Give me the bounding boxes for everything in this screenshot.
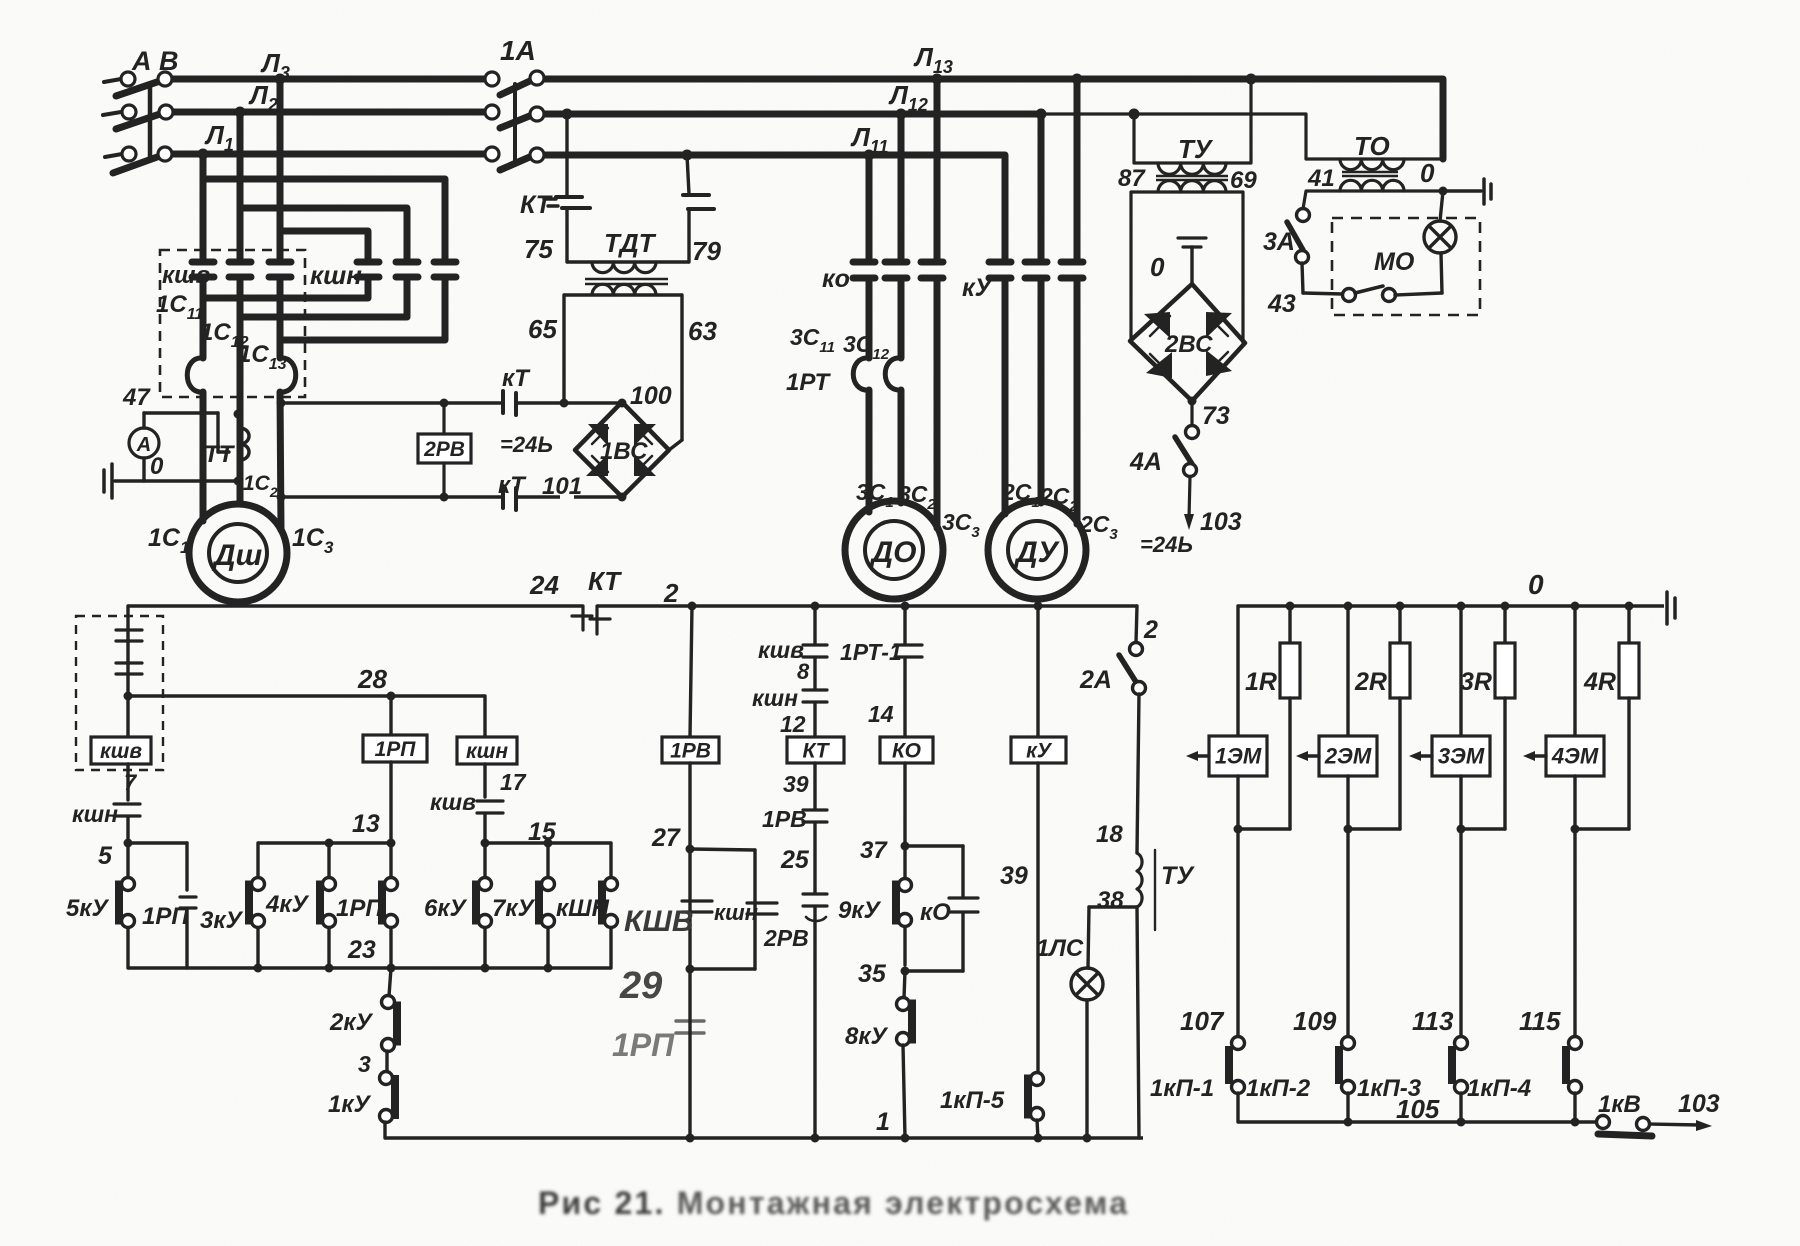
svg-text:63: 63: [688, 316, 717, 346]
wire 2РВ bottom lead: [442, 463, 445, 497]
label 1РТ: [786, 369, 831, 396]
label 0: [150, 453, 164, 480]
svg-text:37: 37: [860, 837, 888, 864]
label 100: [630, 382, 672, 410]
wire rail 13: [258, 841, 391, 844]
svg-text:5кУ: 5кУ: [66, 895, 110, 922]
label 39: [783, 771, 809, 797]
3-phase supply disconnect switch АВ, pole 1 (line Л3): [104, 72, 172, 96]
svg-text:2РВ: 2РВ: [763, 925, 809, 951]
wire ТДТ secondary right lead: [669, 295, 682, 450]
svg-text:1: 1: [876, 1108, 890, 1136]
svg-text:39: 39: [783, 771, 809, 797]
node secondary-left on DC bus: [560, 399, 569, 408]
svg-text:4ЭМ: 4ЭМ: [1551, 744, 1599, 769]
node 28 rail start: [124, 692, 133, 701]
wire line Л1 from АВ to 1А: [172, 151, 489, 158]
svg-text:кшн: кшн: [714, 900, 758, 925]
svg-text:КТ: КТ: [588, 566, 622, 596]
label ТДТ: [604, 228, 657, 258]
contact 1РП self-hold: [382, 839, 398, 969]
wire motor lead 3С3: [934, 280, 941, 528]
relay coil КУ: [1011, 737, 1066, 763]
transformer ТО secondary: [1306, 180, 1443, 191]
node 2РВ top: [440, 399, 449, 408]
svg-text:Рис 21. Монтажная электросхема: Рис 21. Монтажная электросхема: [538, 1185, 1129, 1221]
diode in 1ВС upper-left: [588, 424, 608, 446]
wire joining 4R to coil branch: [1575, 827, 1629, 830]
label ТУ bracket: [1155, 850, 1195, 930]
transformer ТО core: [1342, 172, 1398, 176]
svg-text:кТ: кТ: [502, 365, 531, 392]
svg-text:=24Ь: =24Ь: [500, 432, 553, 457]
wire 1РП coil to node13: [389, 762, 392, 843]
wire 1ЭМ to contact: [1236, 776, 1239, 1036]
wire 1РП coil feed: [387, 692, 396, 736]
wire lamp top lead: [1440, 191, 1443, 221]
label кшн: [72, 801, 118, 827]
label 63: [688, 316, 717, 346]
wire 1РП bypass: [128, 843, 196, 968]
wire drop x=203 from Л1: [200, 154, 207, 258]
svg-text:113: 113: [1412, 1006, 1454, 1036]
node below 2ЭМ: [1344, 825, 1353, 834]
label 12: [780, 711, 806, 737]
contact 2РВ time-delay: [803, 894, 827, 921]
thermal element on lead 1С1: [187, 358, 203, 392]
wire Л13 corner down to ТО: [1440, 79, 1447, 159]
wire jumper y=208 to Кшн col: [240, 208, 407, 258]
label 103: [1678, 1090, 1720, 1118]
svg-text:ДУ: ДУ: [1013, 536, 1061, 569]
svg-text:24: 24: [529, 570, 559, 600]
wire 43 horizontal: [1303, 293, 1343, 294]
label 1ВС: [600, 438, 648, 465]
circuit breaker 1А pole 1: [485, 71, 544, 95]
wire 28 rail: [128, 694, 485, 697]
wire cross link y=340: [280, 337, 445, 344]
contactor contact Кшв phase 2: [229, 262, 251, 277]
label КО: [822, 265, 850, 293]
node КУ rung bottom: [1034, 1134, 1043, 1143]
svg-text:МО: МО: [1374, 248, 1415, 276]
svg-text:2ВС: 2ВС: [1164, 331, 1213, 358]
label Л3: [260, 48, 290, 83]
node rail 548: [544, 964, 553, 973]
wire 3ЭМ upper lead: [1459, 606, 1462, 736]
svg-text:Дш: Дш: [211, 539, 263, 572]
svg-text:3R: 3R: [1460, 668, 1492, 696]
label ТО: [1354, 131, 1390, 161]
wire drop x=1041: [1036, 109, 1047, 259]
label 7: [124, 770, 138, 795]
svg-text:39: 39: [1000, 862, 1028, 890]
pushbutton 5КУ: [119, 843, 135, 968]
node on Л11 at x=869: [864, 150, 875, 161]
node 27: [686, 845, 695, 854]
node resistor branch 3R: [1501, 602, 1510, 611]
svg-text:ТДТ: ТДТ: [604, 228, 657, 258]
svg-text:5: 5: [98, 842, 113, 870]
wire below Кшн coil: [483, 764, 486, 797]
svg-text:100: 100: [630, 382, 672, 410]
diode in 2ВС lower-left: [1146, 352, 1172, 378]
label Кшв: [430, 789, 476, 815]
rectifier bridge 2ВС outline: [1130, 284, 1245, 401]
contact КШВ in loop: [682, 849, 712, 969]
label 3С2: [898, 481, 936, 513]
label 4R: [1583, 668, 1616, 696]
node 29: [686, 965, 695, 974]
wire drop x=280 from Л3: [277, 79, 284, 258]
contact 1РТ-1: [895, 645, 922, 657]
node lamp bottom: [1083, 1134, 1092, 1143]
pushbutton 2КУ: [382, 968, 398, 1072]
label 15: [528, 818, 557, 846]
switch 1А mechanical link: [513, 84, 517, 160]
switch АВ mechanical link: [148, 84, 153, 158]
wire 3R lower lead: [1503, 698, 1506, 829]
node bottom bus 115: [1571, 1118, 1580, 1127]
wire motor lead 3С1 upper: [866, 280, 873, 358]
svg-text:18: 18: [1096, 821, 1123, 848]
wire below ТУ coil: [1137, 907, 1139, 1138]
svg-text:2ЭМ: 2ЭМ: [1324, 744, 1372, 769]
wire 4ЭМ to contact: [1573, 776, 1576, 1036]
ground symbol right: [1667, 592, 1675, 624]
wire lower rail: [128, 966, 611, 969]
wire 2R lower lead: [1398, 698, 1401, 829]
node КУ rung top: [1034, 602, 1043, 611]
wire Л12 corner down to ТО: [1304, 114, 1307, 159]
node resistor branch 1R: [1286, 602, 1295, 611]
wire joining 1R to coil branch: [1238, 827, 1290, 830]
svg-text:101: 101: [542, 473, 582, 500]
wire below 2А: [1137, 694, 1139, 853]
transformer ТО primary: [1306, 159, 1443, 170]
svg-text:4А: 4А: [1129, 448, 1162, 476]
wire arrow 103: [1650, 1120, 1712, 1131]
wire Кшн rung top: [483, 696, 486, 737]
svg-text:кшв: кшв: [430, 789, 476, 815]
wire: [903, 658, 906, 737]
label 9КУ: [838, 897, 882, 924]
switch 2А: [1119, 643, 1146, 695]
thermal element on lead 1С3: [280, 358, 296, 392]
thermal element 1РТ on 3С1: [853, 358, 869, 390]
label 0: [1420, 158, 1435, 188]
motor ДУ: [988, 501, 1086, 599]
wire 1ЭМ upper lead: [1236, 606, 1239, 736]
label 13: [352, 810, 380, 838]
label 2ВС: [1164, 331, 1213, 358]
svg-text:ТО: ТО: [1354, 131, 1390, 161]
label 2R: [1354, 668, 1387, 696]
label 1С2: [243, 472, 278, 500]
label КУ: [962, 274, 994, 302]
label 101: [542, 473, 582, 500]
label 107: [1180, 1006, 1225, 1036]
node rail 485: [481, 964, 490, 973]
wire 43 down: [1302, 263, 1303, 293]
node 4ЭМ branch top: [1571, 602, 1580, 611]
wire 2РВ top lead: [442, 403, 445, 434]
label 3С11: [790, 324, 835, 356]
svg-text:6кУ: 6кУ: [424, 895, 468, 922]
svg-text:кУ: кУ: [962, 274, 994, 302]
label 1кП-1: [1150, 1075, 1214, 1102]
dashed enclosure of Кшв contacts: [160, 250, 305, 397]
bus bottom right: [1238, 1120, 1596, 1123]
node below 1ЭМ: [1234, 825, 1243, 834]
svg-text:103: 103: [1678, 1090, 1720, 1118]
contact КТ on bottom DC bus: [503, 486, 516, 510]
wire ТУ secondary right lead: [1241, 192, 1244, 343]
svg-text:3: 3: [358, 1051, 371, 1077]
switch 3А: [1287, 209, 1310, 264]
label 2С2: [1039, 483, 1078, 515]
label Кшв: [162, 262, 210, 289]
label 29: [619, 965, 662, 1007]
contact КТ on top DC bus: [503, 391, 516, 415]
dashed enclosure МО: [1332, 218, 1480, 315]
svg-text:0: 0: [1528, 569, 1544, 600]
node 1РВ rung top: [688, 602, 697, 611]
label ТУ: [1178, 134, 1214, 164]
contact КШН: [602, 843, 618, 968]
contact Кшн in Кшв rung: [114, 804, 140, 816]
stator lead 1С3 lower: [280, 392, 281, 530]
label =24В: [500, 432, 553, 457]
node 5: [124, 839, 133, 848]
label 25: [780, 846, 810, 874]
wire: [903, 763, 906, 846]
label 38: [1097, 887, 1124, 914]
svg-text:1кП-2: 1кП-2: [1246, 1075, 1311, 1102]
label 18: [1096, 821, 1123, 848]
label 1РП: [336, 895, 383, 922]
wire ТУ primary left lead: [1132, 114, 1135, 163]
contact КТ in ТДТ right feed: [683, 195, 714, 209]
resistor 1R: [1280, 643, 1300, 698]
diode in 2ВС lower-right: [1206, 350, 1232, 376]
wire drop x=1077: [1072, 74, 1083, 259]
wire to node 5: [126, 817, 129, 843]
svg-text:8: 8: [797, 659, 810, 684]
ground symbol left: [104, 464, 112, 498]
wire below Кшв coil: [126, 764, 129, 800]
stator lead 1С1 lower: [200, 392, 207, 521]
wire 2ЭМ to contact: [1346, 776, 1349, 1036]
label 1кП-4: [1467, 1075, 1531, 1102]
label 1С12: [200, 319, 249, 351]
wire: [813, 703, 816, 737]
node rail 391: [387, 964, 396, 973]
label 5КУ: [66, 895, 110, 922]
label 2: [663, 578, 679, 608]
label Л1: [204, 120, 234, 155]
contact Кшв: [803, 645, 827, 657]
wire 0 to ground: [115, 479, 238, 482]
svg-text:1РВ: 1РВ: [762, 806, 807, 832]
label 1РВ: [762, 806, 807, 832]
svg-text:1кП-4: 1кП-4: [1467, 1075, 1531, 1102]
lamp МО: [1424, 221, 1456, 253]
wire 2ЭМ upper lead: [1346, 606, 1349, 736]
label 105: [1396, 1094, 1440, 1124]
wire motor lead 2С2: [1038, 280, 1045, 503]
svg-text:2R: 2R: [1354, 668, 1387, 696]
label 73: [1202, 402, 1230, 430]
transformer ТУ secondary: [1131, 181, 1243, 192]
wire jumper y=231 to Кшн col: [280, 231, 368, 258]
label 1РТ-1: [840, 639, 902, 665]
relay coil 1РВ: [662, 737, 719, 763]
stator lead 1С3 upper: [277, 340, 284, 358]
svg-text:4кУ: 4кУ: [265, 891, 310, 918]
svg-text:кшн: кшн: [752, 685, 798, 711]
label 3КУ: [200, 907, 244, 934]
label 2А: [1079, 666, 1112, 694]
svg-text:1А: 1А: [500, 35, 536, 66]
label 47: [122, 384, 151, 411]
label 4А: [1129, 448, 1162, 476]
svg-text:КТ: КТ: [803, 739, 831, 762]
svg-text:ДО: ДО: [869, 536, 917, 569]
svg-text:47: 47: [122, 384, 151, 411]
wire col1 lower: [200, 279, 207, 298]
svg-text:35: 35: [858, 960, 887, 988]
svg-text:кшн: кшн: [310, 260, 362, 290]
node on Л3 at x=280: [275, 74, 286, 85]
node on Л1 for ТДТ: [682, 150, 693, 161]
wire 1R upper lead: [1288, 606, 1291, 643]
label Л11: [850, 122, 889, 157]
relay coil Кшв: [91, 737, 151, 764]
svg-text:кО: кО: [920, 899, 951, 926]
label 2С3: [1079, 511, 1118, 543]
wire ТУ primary right lead: [1249, 79, 1252, 163]
svg-text:кшн: кшн: [72, 801, 118, 827]
node below 3ЭМ: [1457, 825, 1466, 834]
label 87: [1118, 165, 1146, 192]
wire: [813, 823, 816, 893]
wire cross link y=317: [240, 314, 407, 321]
relay coil КО: [880, 737, 933, 763]
wire 2R upper lead: [1398, 606, 1401, 643]
wire: [813, 763, 816, 809]
node 1РВ rung bottom: [686, 1134, 695, 1143]
pushbutton 7КУ: [539, 839, 555, 969]
label 109: [1293, 1006, 1337, 1036]
svg-text:ТУ: ТУ: [1178, 134, 1214, 164]
label КШН: [556, 895, 610, 922]
svg-text:КТ: КТ: [520, 191, 554, 219]
label 5: [98, 842, 113, 870]
svg-text:73: 73: [1202, 402, 1230, 430]
svg-text:43: 43: [1267, 290, 1296, 318]
wire drop x=901: [896, 109, 907, 259]
contactor contact КО phase 3: [921, 262, 943, 278]
contactor contact Кшн phase 3: [434, 262, 456, 277]
wire line Л12 thin continuation to ТО: [1041, 112, 1306, 115]
control bus bottom: [385, 1136, 1143, 1139]
label 1С11: [156, 291, 203, 323]
wire Кшв rung upper: [126, 606, 129, 737]
contactor contact Кшн phase 2: [396, 262, 418, 277]
label 14: [868, 701, 894, 727]
ground symbol top right: [1484, 179, 1491, 204]
contactor contact КУ phase 2: [1025, 262, 1047, 278]
label 1кП-2: [1246, 1075, 1311, 1102]
wire joining 3R to coil branch: [1461, 827, 1505, 830]
svg-text:1РВ: 1РВ: [670, 739, 711, 762]
resistor 4R: [1619, 643, 1639, 698]
svg-text:1РП: 1РП: [142, 903, 189, 930]
wire col5 lower: [404, 279, 411, 317]
svg-text:38: 38: [1097, 887, 1124, 914]
wire motor lead 2С3: [1074, 280, 1081, 524]
svg-text:1ЛС: 1ЛС: [1036, 935, 1084, 962]
svg-text:75: 75: [524, 234, 553, 264]
label 37: [860, 837, 888, 864]
contact КО self-hold: [905, 846, 978, 971]
rectifier bridge 1ВС outline: [575, 402, 669, 497]
svg-text:1РТ-1: 1РТ-1: [840, 639, 902, 665]
svg-text:2: 2: [1143, 616, 1158, 644]
label 1R: [1245, 668, 1277, 696]
node rail 329: [325, 964, 334, 973]
label КТ: [502, 365, 531, 392]
transformer ТДТ secondary: [564, 284, 682, 295]
svg-text:7кУ: 7кУ: [492, 895, 536, 922]
control bus top: [128, 604, 1137, 607]
node on lead 1С2: [234, 410, 243, 419]
label 4КУ: [265, 891, 310, 918]
switch 4А: [1175, 426, 1199, 477]
pushbutton 3КУ: [249, 843, 265, 968]
ammeter bottom lead: [142, 458, 145, 481]
transformer ТУ core: [1156, 176, 1228, 180]
pushbutton 1КП-5: [1028, 1073, 1044, 1139]
contact 1кП-4: [1566, 1037, 1582, 1123]
thermal element 1РТ on 3С2: [885, 280, 901, 390]
svg-text:А В: А В: [131, 46, 179, 76]
svg-text:2А: 2А: [1079, 666, 1112, 694]
svg-text:17: 17: [500, 769, 527, 795]
label 79: [692, 236, 721, 266]
wire КТ rung upper: [813, 606, 816, 644]
svg-text:115: 115: [1519, 1006, 1561, 1036]
svg-text:1R: 1R: [1245, 668, 1277, 696]
relay coil КТ: [787, 737, 844, 763]
svg-text:41: 41: [1307, 165, 1335, 192]
svg-text:КО: КО: [892, 739, 921, 762]
contact 1РП lower: [676, 1021, 704, 1033]
label 1А: [500, 35, 536, 66]
svg-text:79: 79: [692, 236, 721, 266]
label КТ: [498, 472, 527, 499]
label 23: [347, 936, 376, 964]
label 28: [357, 664, 387, 694]
wire 103 lead with arrow: [1184, 477, 1194, 530]
label 0: [1528, 569, 1544, 600]
label 75: [524, 234, 553, 264]
node rail 258: [254, 964, 263, 973]
svg-text:103: 103: [1200, 508, 1242, 536]
svg-text:1РП: 1РП: [375, 738, 417, 761]
svg-text:кшн: кшн: [466, 740, 508, 763]
